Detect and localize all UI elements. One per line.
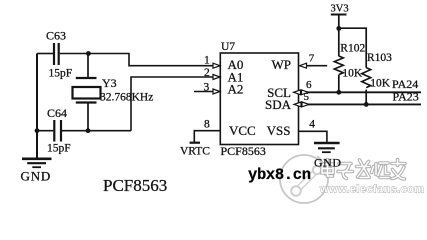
capacitor C63 bbox=[37, 43, 88, 65]
wire: top rail to pin 1 bbox=[88, 54, 213, 66]
pin 4 wire VSS bbox=[299, 131, 327, 142]
svg-text:15pF: 15pF bbox=[47, 143, 71, 155]
svg-text:Y3: Y3 bbox=[102, 76, 117, 90]
pin 2 arrowhead bbox=[213, 75, 220, 80]
svg-text:PCF8563: PCF8563 bbox=[221, 144, 266, 158]
svg-text:1: 1 bbox=[204, 55, 210, 67]
svg-text:PCF8563: PCF8563 bbox=[103, 176, 167, 195]
pin 8 wire VCC bbox=[194, 131, 220, 142]
svg-text:GND: GND bbox=[21, 169, 52, 184]
crystal Y3 bbox=[73, 54, 101, 131]
node: R102 / SCL junction bbox=[336, 90, 341, 95]
wire: R103 to SDA line bbox=[365, 90, 367, 105]
pin 7 wire WP bbox=[307, 65, 328, 67]
op chip U7 PCF8563 bbox=[220, 53, 298, 145]
ground (right) bbox=[314, 143, 340, 152]
svg-text:PA23: PA23 bbox=[393, 90, 419, 104]
svg-text:WP: WP bbox=[272, 57, 292, 72]
VRTC terminal bar bbox=[190, 142, 200, 144]
node: 3V3 split junction bbox=[336, 26, 341, 31]
svg-text:15pF: 15pF bbox=[49, 68, 73, 80]
pin 5 arrowheads bbox=[294, 102, 309, 107]
wire: C64 to pin2 riser bbox=[88, 130, 131, 132]
svg-text:C63: C63 bbox=[46, 29, 66, 43]
svg-text:VSS: VSS bbox=[267, 123, 291, 138]
node: junction top rail / crystal bbox=[86, 51, 91, 56]
svg-text:ybx8.cn: ybx8.cn bbox=[248, 166, 311, 184]
watermark logo circle bbox=[280, 155, 328, 203]
ground (left) bbox=[22, 159, 52, 167]
svg-text:R103: R103 bbox=[367, 52, 392, 64]
wire: R102 to SCL line bbox=[338, 75, 340, 93]
svg-text:10K: 10K bbox=[370, 78, 391, 90]
wire: left rail bbox=[36, 54, 38, 159]
svg-text:5: 5 bbox=[304, 91, 310, 103]
pin 3 arrowhead bbox=[213, 89, 220, 94]
svg-text:2: 2 bbox=[204, 67, 210, 79]
resistor R103 bbox=[362, 68, 371, 88]
capacitor C64 bbox=[37, 120, 88, 142]
wire: 3V3 down bbox=[338, 15, 340, 57]
watermark chinese characters bbox=[322, 160, 405, 180]
wire SCL / PA24 line bbox=[299, 91, 422, 93]
wire: branch to R103 bbox=[339, 28, 366, 67]
svg-text:3V3: 3V3 bbox=[331, 4, 349, 15]
svg-text:C64: C64 bbox=[47, 106, 67, 120]
svg-text:8: 8 bbox=[204, 118, 210, 130]
svg-text:www.elecfans.com: www.elecfans.com bbox=[319, 184, 424, 196]
svg-text:SDA: SDA bbox=[265, 97, 292, 112]
node: junction crystal bottom / C64 bbox=[86, 128, 91, 133]
pin 1 arrowhead bbox=[213, 63, 220, 68]
svg-text:VCC: VCC bbox=[229, 123, 256, 138]
resistor R102 bbox=[334, 56, 343, 75]
pin 7 arrowhead bbox=[300, 63, 307, 68]
svg-text:4: 4 bbox=[309, 118, 315, 130]
node: junction left rail / C64 bbox=[35, 128, 40, 133]
svg-text:U7: U7 bbox=[221, 41, 235, 53]
svg-text:VRTC: VRTC bbox=[180, 146, 210, 158]
node: R103 / SDA junction bbox=[364, 102, 369, 107]
svg-text:6: 6 bbox=[306, 79, 312, 91]
svg-text:32.768KHz: 32.768KHz bbox=[100, 92, 153, 104]
wire SDA / PA23 line bbox=[299, 103, 422, 105]
pin 6 arrowheads bbox=[294, 90, 309, 95]
svg-text:10K: 10K bbox=[342, 68, 363, 80]
svg-text:R102: R102 bbox=[340, 43, 365, 55]
svg-text:A2: A2 bbox=[228, 82, 244, 97]
svg-text:7: 7 bbox=[309, 53, 315, 65]
svg-text:3: 3 bbox=[204, 82, 210, 94]
svg-text:GND: GND bbox=[314, 156, 342, 170]
wire: pin 2 riser bbox=[131, 77, 214, 131]
wire: pin 3 stub bbox=[194, 91, 214, 93]
